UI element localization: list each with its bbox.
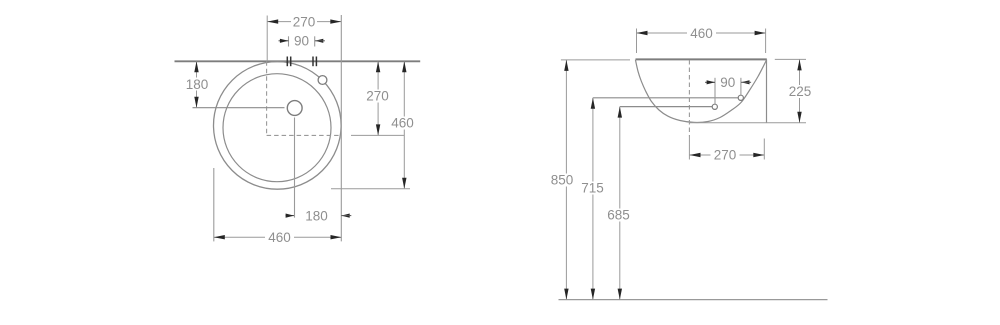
svg-text:180: 180 — [305, 208, 328, 223]
long right extension line — [340, 15, 342, 241]
svg-text:460: 460 — [391, 116, 414, 131]
dimension 180 left — [183, 61, 210, 107]
hole mark lower — [712, 104, 717, 109]
dimension 90 (side view) — [705, 75, 751, 104]
svg-text:715: 715 — [581, 181, 604, 196]
svg-text:270: 270 — [293, 14, 316, 29]
dimension 685 — [605, 107, 632, 300]
dimension 850 — [549, 60, 576, 300]
dimension 90 top — [279, 34, 325, 49]
extension line for 270-right bottom — [351, 134, 404, 136]
svg-text:90: 90 — [294, 34, 309, 49]
fixing tick pair right — [313, 57, 316, 67]
overflow hole — [318, 76, 327, 85]
basin top rim line — [636, 58, 767, 60]
wall side edge — [766, 59, 768, 122]
svg-text:460: 460 — [690, 26, 713, 41]
tap hole axis vertical — [294, 118, 296, 218]
svg-text:180: 180 — [186, 77, 209, 92]
dimension 460 bottom — [214, 230, 342, 245]
bowl profile arc — [635, 60, 766, 123]
hole mark upper — [738, 95, 743, 100]
dimension 270 (side view) — [690, 139, 765, 163]
dimension 270 top — [267, 14, 341, 29]
dashed axis horizontal — [267, 134, 342, 136]
dimension 715 — [579, 98, 606, 300]
dimension 270 right — [364, 61, 391, 135]
dashed axis vertical — [266, 61, 268, 135]
basin outer rim circle — [213, 62, 341, 190]
svg-text:225: 225 — [789, 84, 812, 99]
svg-text:90: 90 — [720, 75, 735, 90]
dimension 225 right — [690, 59, 814, 122]
svg-text:850: 850 — [551, 173, 574, 188]
floor line — [559, 299, 828, 301]
reference line 685 level — [620, 106, 712, 108]
fixing tick pair left — [287, 57, 290, 67]
svg-text:685: 685 — [607, 208, 630, 223]
tap axis extension — [688, 137, 690, 160]
basin inner bowl circle — [223, 74, 331, 182]
svg-text:460: 460 — [268, 230, 291, 245]
svg-text:270: 270 — [366, 89, 389, 104]
reference line 715 level — [593, 97, 738, 99]
center line horizontal — [193, 107, 285, 109]
tap axis dashed — [688, 60, 690, 137]
dimension 180 bottom — [286, 208, 352, 223]
svg-text:270: 270 — [714, 148, 737, 163]
extension 850 top — [561, 59, 630, 61]
wall line — [175, 60, 421, 62]
extension line top-270 left — [266, 16, 268, 62]
extension line bottom-460 left — [213, 168, 215, 241]
dimension 460 top (side view) — [637, 26, 766, 53]
tap hole — [287, 101, 302, 116]
dimension 460 right — [331, 61, 417, 189]
